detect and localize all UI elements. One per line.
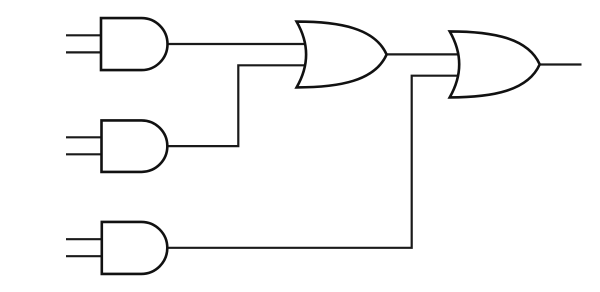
- OR gate U5: [450, 31, 540, 97]
- wire: AND U3 input B stub: [66, 255, 102, 257]
- wire: AND U2 input B stub: [66, 153, 102, 155]
- AND gate U1: [101, 18, 168, 70]
- AND gate U2: [102, 120, 168, 171]
- wire: AND U1 input B stub: [66, 51, 101, 53]
- wire: AND U3 output riser to OR U5 bottom input: [166, 76, 460, 248]
- wire: AND U1 output to OR U4 top input: [166, 43, 307, 45]
- OR gate U4: [297, 22, 387, 88]
- AND gate U3: [102, 222, 168, 274]
- wire: OR U5 output: [539, 63, 582, 65]
- wire: AND U3 input A stub: [66, 238, 102, 240]
- wire: OR U4 output to OR U5 top input: [386, 53, 460, 55]
- wire: AND U1 input A stub: [66, 34, 101, 36]
- wire: AND U2 input A stub: [66, 136, 102, 138]
- wire: AND U2 output riser to OR U4 bottom input: [166, 65, 307, 146]
